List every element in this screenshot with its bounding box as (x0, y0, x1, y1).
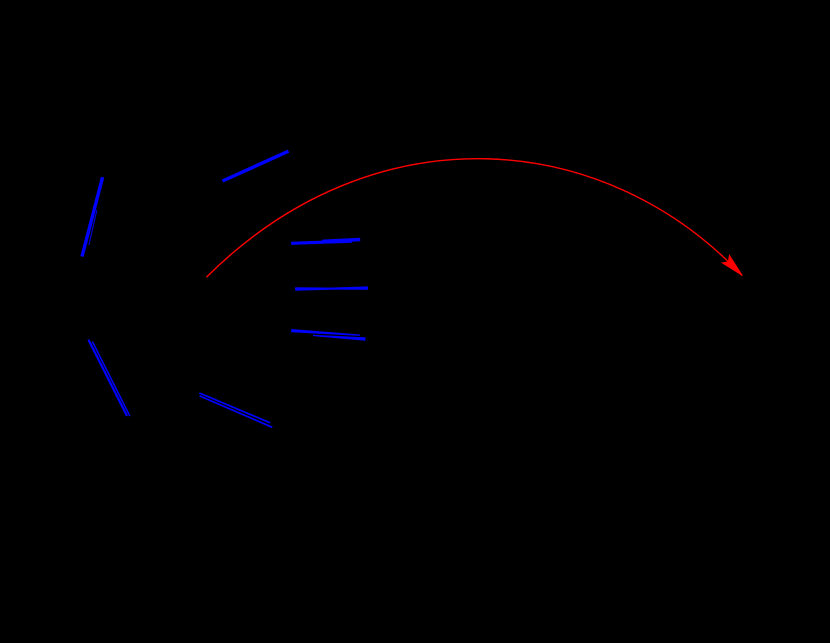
bond highlight B1 (upper-left diagonal) (82, 177, 103, 256)
bond highlight B3 (top horizontal pair) (291, 240, 360, 244)
bond highlight B6 (lower-left double line) (88, 340, 129, 417)
reaction arrow head (722, 255, 742, 275)
reaction arrow (red curved arc) (206, 159, 742, 278)
bond highlight B4 (middle horizontal pair) (295, 286, 368, 290)
bond highlight B5 (lower horizontal pair) (291, 329, 366, 341)
bond highlight B7 (lower-middle double line) (199, 393, 272, 427)
bond highlight B2 (upper-middle diagonal) (223, 151, 289, 181)
